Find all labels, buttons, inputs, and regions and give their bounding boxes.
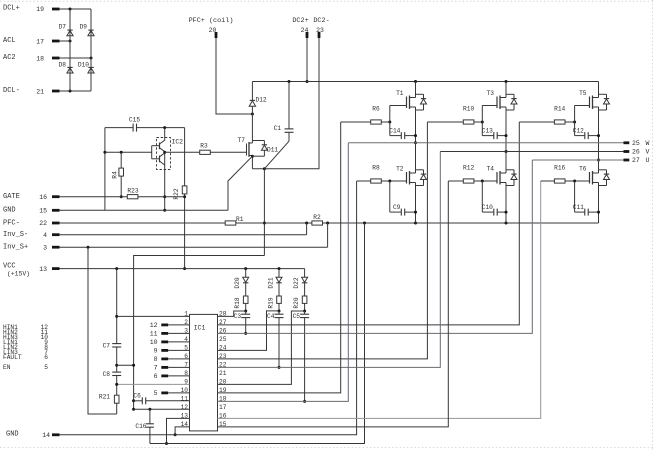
connector pin VCC 13 <box>3 262 60 277</box>
connector pin HIN1 12 <box>3 324 48 331</box>
resistor R2 <box>312 214 323 225</box>
svg-text:V: V <box>646 149 650 156</box>
resistor R10 <box>427 106 483 125</box>
wire C7 C8 junction row <box>117 364 135 367</box>
wire PFC+ feed <box>216 38 254 116</box>
svg-text:Inv_S-: Inv_S- <box>3 231 28 239</box>
svg-text:DCL+: DCL+ <box>3 5 20 13</box>
wire Inv_S- row <box>60 223 307 235</box>
svg-text:13: 13 <box>39 266 47 273</box>
svg-text:C14: C14 <box>389 128 400 135</box>
wire PFC- bottom rail <box>60 222 599 225</box>
wire sense row <box>132 256 264 411</box>
svg-text:5: 5 <box>154 390 158 397</box>
diode T2 freewheel <box>416 170 427 186</box>
svg-text:6: 6 <box>44 354 48 361</box>
svg-text:25: 25 <box>219 336 227 343</box>
wire IC1 pin28 to C3 <box>218 311 246 316</box>
wire GND bottom row <box>60 181 357 435</box>
resistor R18 <box>234 296 248 313</box>
svg-text:C4: C4 <box>267 313 275 320</box>
svg-text:R23: R23 <box>127 188 138 195</box>
svg-text:12: 12 <box>150 322 158 329</box>
wire Inv_S+ branch <box>88 247 117 414</box>
svg-text:16: 16 <box>39 194 47 201</box>
connector pin DCL+ 19 <box>3 5 60 13</box>
wire DC2- drop <box>252 38 319 170</box>
connector pin GATE 16 <box>3 193 60 201</box>
svg-text:EN: EN <box>3 364 11 371</box>
IC1 right pin numbers 15-28 <box>219 311 227 429</box>
svg-text:GND: GND <box>3 207 16 215</box>
capacitor C8 <box>103 347 122 378</box>
capacitor C11 <box>573 181 600 216</box>
wire U output line <box>532 159 623 161</box>
wire IC1 pin23 to R10 <box>218 122 428 359</box>
capacitor C9 <box>390 181 417 216</box>
svg-text:D21: D21 <box>267 277 274 288</box>
svg-text:4: 4 <box>43 232 47 239</box>
svg-text:T6: T6 <box>579 165 587 172</box>
IC IC1 <box>190 314 218 431</box>
capacitor C16 <box>135 409 154 443</box>
connector pin ACL 17 <box>3 37 60 45</box>
connector pin Inv_S+ 3 <box>3 244 60 252</box>
svg-text:R6: R6 <box>372 106 380 113</box>
wire rail corner to T5 <box>0 0 1 1</box>
svg-text:T3: T3 <box>487 90 495 97</box>
svg-text:C9: C9 <box>393 204 401 211</box>
svg-text:C10: C10 <box>482 204 493 211</box>
svg-text:R12: R12 <box>463 165 474 172</box>
svg-text:R14: R14 <box>554 106 565 113</box>
connector pin PFC- 22 <box>3 219 60 227</box>
svg-text:PFC+ (coil): PFC+ (coil) <box>189 17 234 25</box>
resistor R14 <box>519 106 576 125</box>
svg-text:IC2: IC2 <box>172 139 184 146</box>
svg-text:21: 21 <box>36 89 44 96</box>
wire DCL+ row <box>60 8 92 11</box>
svg-text:22: 22 <box>39 220 47 227</box>
capacitor C1 <box>264 82 293 169</box>
svg-text:C1: C1 <box>274 125 282 132</box>
connector pin HIN3 10 <box>3 334 48 341</box>
connector pin DCL- 21 <box>3 87 60 95</box>
wire C15 left leg <box>103 128 106 211</box>
svg-text:DCL-: DCL- <box>3 87 20 95</box>
wire C16 bottom row <box>150 223 365 444</box>
transistor T1 <box>390 82 417 145</box>
svg-text:3: 3 <box>43 244 47 251</box>
capacitor C13 <box>482 122 508 139</box>
svg-text:C15: C15 <box>129 117 140 124</box>
wire IC1 pin13 drop <box>165 418 190 445</box>
svg-text:R20: R20 <box>293 297 300 308</box>
capacitor C12 <box>573 122 600 139</box>
diode T5 freewheel <box>599 94 610 110</box>
wire PFC return node <box>263 169 266 256</box>
wire VCC row <box>60 267 305 270</box>
svg-text:IC1: IC1 <box>194 325 206 332</box>
capacitor C15 <box>105 117 185 132</box>
connector pin LIN3 7 <box>3 349 48 356</box>
svg-text:27: 27 <box>632 157 640 164</box>
wire GND row <box>60 209 229 211</box>
diode D9 <box>80 24 95 36</box>
connector pin HIN2 11 <box>3 329 48 336</box>
svg-text:R4: R4 <box>112 171 119 179</box>
connector pin EN 5 <box>3 364 48 371</box>
svg-text:R16: R16 <box>554 165 565 172</box>
svg-text:12: 12 <box>181 404 189 411</box>
node net 6 stub to IC1 pin 8 <box>154 373 190 380</box>
wire Inv_S+ row <box>60 223 328 249</box>
capacitor C5 <box>293 311 310 403</box>
svg-text:T1: T1 <box>396 90 404 97</box>
transistor T3 <box>482 82 507 154</box>
svg-text:Inv_S+: Inv_S+ <box>3 244 28 252</box>
wire IC1 pin15 to R12 <box>218 181 449 427</box>
node net 5 stub to IC1 pin 10 <box>154 390 190 397</box>
svg-text:17: 17 <box>219 404 227 411</box>
svg-text:R18: R18 <box>234 297 241 308</box>
node net 9 stub to IC1 pin 5 <box>154 348 190 355</box>
boost diode D12 <box>249 82 267 115</box>
diode T6 freewheel <box>599 170 610 186</box>
svg-text:T7: T7 <box>238 137 246 144</box>
svg-text:6: 6 <box>154 373 158 380</box>
svg-text:21: 21 <box>219 370 227 377</box>
wire bridge right branch <box>90 9 92 91</box>
wire W output line <box>348 142 623 144</box>
svg-text:7: 7 <box>154 365 158 372</box>
svg-text:D10: D10 <box>78 62 89 69</box>
svg-text:U: U <box>646 157 650 164</box>
svg-text:25: 25 <box>632 140 640 147</box>
svg-text:GND: GND <box>6 430 19 438</box>
wire V output line <box>440 151 623 153</box>
diode D8 <box>59 62 74 73</box>
svg-text:19: 19 <box>36 6 44 13</box>
svg-text:D8: D8 <box>59 62 67 69</box>
wire IC1 pin19 to R6 <box>218 122 341 393</box>
svg-text:VCC: VCC <box>3 262 16 270</box>
svg-text:R3: R3 <box>200 143 208 150</box>
svg-text:10: 10 <box>150 339 158 346</box>
capacitor C6 <box>133 392 189 404</box>
svg-text:D20: D20 <box>234 277 241 288</box>
svg-text:DC2+: DC2+ <box>292 17 308 25</box>
svg-text:R21: R21 <box>99 394 110 401</box>
transistor T6 <box>579 160 598 223</box>
diode T4 freewheel <box>506 170 517 186</box>
svg-text:14: 14 <box>42 432 50 439</box>
connector pin 27 U <box>624 157 650 164</box>
wire IC1 pin16 to R16 <box>218 181 541 418</box>
resistor R16 <box>541 165 590 183</box>
wire T7 source to GND diagonal <box>228 156 252 210</box>
wire bridge left branch <box>69 9 71 91</box>
connector pin FAULT 6 <box>3 354 48 361</box>
node net 12 stub to IC1 pin 2 <box>150 322 190 329</box>
svg-text:C5: C5 <box>293 313 301 320</box>
resistor R12 <box>448 165 497 183</box>
resistor R8 <box>357 165 407 183</box>
svg-text:D9: D9 <box>80 24 88 31</box>
transistor T7 <box>238 114 254 169</box>
svg-text:C13: C13 <box>482 128 493 135</box>
connector pin LIN1 9 <box>3 339 48 346</box>
node net 11 stub to IC1 pin 3 <box>150 331 190 338</box>
svg-text:8: 8 <box>154 356 158 363</box>
diode D10 <box>78 62 94 73</box>
wire IC1 pin14 drop <box>174 427 190 436</box>
IC1 left pin numbers 1-14 <box>181 311 189 429</box>
svg-text:R2: R2 <box>313 214 321 221</box>
svg-text:T4: T4 <box>487 165 495 172</box>
diode D22 <box>293 269 308 296</box>
svg-text:W: W <box>646 140 650 147</box>
svg-text:(+15V): (+15V) <box>7 271 30 278</box>
diode D20 <box>234 269 249 296</box>
svg-text:26: 26 <box>632 149 640 156</box>
diode D11 <box>252 141 278 157</box>
diode T3 freewheel <box>506 94 517 110</box>
connector pin LIN2 8 <box>3 344 48 351</box>
svg-text:R8: R8 <box>372 165 380 172</box>
node net 10 stub to IC1 pin 4 <box>150 339 190 346</box>
connector pin DC2- 23 <box>313 17 329 38</box>
svg-text:9: 9 <box>154 348 158 355</box>
connector pin GND 14 <box>6 430 60 439</box>
resistor R1 <box>225 216 244 225</box>
svg-text:11: 11 <box>181 396 189 403</box>
connector pin PFC+ (coil) 20 <box>189 17 234 38</box>
svg-text:C16: C16 <box>135 423 146 430</box>
svg-text:DC2-: DC2- <box>313 17 329 25</box>
svg-text:GATE: GATE <box>3 193 20 201</box>
wire DCL- row <box>60 90 92 93</box>
wire IC1 pin9 row <box>115 383 189 386</box>
capacitor C3 <box>234 311 251 335</box>
svg-text:T2: T2 <box>396 165 404 172</box>
wire IC1 pin26 to U <box>218 160 533 333</box>
svg-text:D12: D12 <box>256 96 267 103</box>
transistor T5 <box>575 82 600 162</box>
wire IC1 pin20 to C5 <box>218 311 305 384</box>
transistor T2 <box>396 143 415 223</box>
svg-text:C8: C8 <box>103 371 111 378</box>
svg-text:C3: C3 <box>234 313 242 320</box>
transistor T4 <box>487 152 506 224</box>
resistor R6 <box>341 106 392 125</box>
svg-text:D7: D7 <box>59 24 67 31</box>
resistor R19 <box>267 296 281 313</box>
svg-text:FAULT: FAULT <box>3 354 22 361</box>
connector pin AC2 18 <box>3 54 60 62</box>
capacitor C10 <box>482 181 508 216</box>
resistor R3 <box>165 143 247 155</box>
wire AC2 row <box>60 57 93 60</box>
driver IC2 <box>105 128 183 170</box>
wire IC2 collector drop <box>163 165 166 212</box>
svg-text:11: 11 <box>150 331 158 338</box>
wire DC2+ drop <box>306 38 309 83</box>
connector pin DC2+ 24 <box>292 17 308 38</box>
svg-text:15: 15 <box>39 208 47 215</box>
svg-text:ACL: ACL <box>3 37 16 45</box>
svg-text:R19: R19 <box>267 297 274 308</box>
svg-text:R22: R22 <box>173 188 180 199</box>
svg-text:AC2: AC2 <box>3 54 16 62</box>
svg-text:17: 17 <box>36 39 44 46</box>
connector pin 25 W <box>624 140 650 147</box>
node net 7 stub to IC1 pin 7 <box>154 365 190 372</box>
svg-text:C6: C6 <box>133 392 141 399</box>
capacitor C4 <box>267 311 284 369</box>
wire IC1 pin12 row <box>134 408 190 411</box>
svg-text:R10: R10 <box>463 106 474 113</box>
wire IC1 pin22 to V <box>218 152 441 368</box>
svg-text:D11: D11 <box>267 147 278 154</box>
svg-text:PFC-: PFC- <box>3 219 20 227</box>
svg-text:R1: R1 <box>236 216 244 223</box>
capacitor C7 <box>103 269 122 350</box>
wire IC1 pin18 to W <box>218 143 349 402</box>
svg-text:D22: D22 <box>293 277 300 288</box>
wire IC1 pin1 row <box>117 315 190 317</box>
resistor R23 <box>127 188 139 199</box>
wire GATE row <box>60 196 185 198</box>
resistor R21 <box>99 376 119 415</box>
svg-text:T5: T5 <box>579 90 587 97</box>
node net 8 stub to IC1 pin 6 <box>154 356 190 363</box>
connector pin GND 15 <box>3 207 60 215</box>
wire ACL row <box>60 40 72 43</box>
resistor R22 <box>173 128 187 271</box>
resistor R4 <box>112 152 124 198</box>
svg-text:18: 18 <box>36 56 44 63</box>
svg-text:5: 5 <box>44 364 48 371</box>
resistor R20 <box>293 296 307 313</box>
connector pin Inv_S- 4 <box>3 231 60 239</box>
svg-text:C7: C7 <box>103 342 111 349</box>
capacitor C14 <box>389 122 417 139</box>
diode D21 <box>267 269 282 296</box>
diode T1 freewheel <box>416 94 427 110</box>
connector pin 26 V <box>624 149 650 156</box>
diode D7 <box>59 24 74 36</box>
wire DC+ top rail <box>252 80 598 83</box>
wire IC1 pin27 to R14 <box>218 122 520 325</box>
wire IC1 pin24 to C4 <box>218 311 280 351</box>
